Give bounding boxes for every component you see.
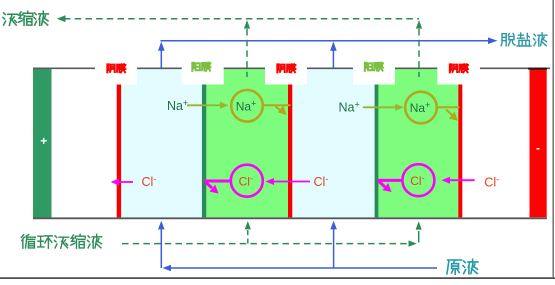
Cl- blocked arrow cell 1 at M2 bbox=[205, 180, 231, 183]
Cl- blocked arrow cell 2 at M4 bbox=[378, 179, 402, 182]
bottom concentrate dashed riser 1 (green) bbox=[247, 230, 249, 244]
bottom concentrate dashed riser corner bbox=[418, 236, 420, 243]
electrode anode (+) green bbox=[33, 68, 52, 218]
Na+ blocked arrow cell 1 through M3 bbox=[263, 104, 291, 106]
svg-text:-: - bbox=[536, 141, 540, 155]
top dilute outlet pipe (blue) riser 2 bbox=[332, 50, 334, 68]
cell: dilute compartment 1 (light blue) bbox=[121, 69, 202, 217]
label yang-mo M4 (green) bbox=[365, 63, 383, 71]
Na+ feed arrow cell 2 (yellow-green) bbox=[363, 106, 396, 108]
Na+ ion circle cell 1 (olive) bbox=[231, 90, 263, 122]
label box M4 bbox=[353, 54, 395, 85]
top dilute outlet pipe (blue) riser 1 bbox=[160, 50, 162, 68]
Cl- passing arrow through M1 (magenta) bbox=[117, 181, 133, 183]
cell: concentrate compartment 1 (green) bbox=[206, 69, 288, 217]
membrane M5 anion (red) bbox=[458, 84, 462, 217]
Cl- ion circle cell 1 (magenta) bbox=[231, 165, 263, 197]
label yang-mo M2 (green) bbox=[192, 63, 210, 71]
Na+ feed arrow cell 1 (yellow-green) bbox=[187, 104, 221, 106]
bottom feed header (blue) from raw bbox=[166, 267, 437, 269]
slide frame bottom line bbox=[0, 277, 555, 279]
label box M5 bbox=[437, 54, 480, 85]
electrode cathode (-) red bbox=[530, 70, 547, 218]
bottom concentrate dashed riser 2 (green) bbox=[418, 230, 420, 237]
membrane M2 cation (dark green) bbox=[202, 84, 206, 217]
cell: dilute compartment 2 (light blue) bbox=[292, 69, 374, 217]
membrane M3 anion (red) bbox=[288, 84, 292, 217]
cell: left white compartment bbox=[53, 69, 117, 217]
top concentrate dashed riser 2 (green) bbox=[418, 29, 420, 77]
text yuan-ye (raw liquid) bottom-right bbox=[447, 259, 478, 274]
cell: concentrate compartment 2 (green) bbox=[378, 69, 458, 217]
tank bottom border bbox=[33, 217, 547, 219]
cell: right white compartment bbox=[462, 69, 529, 217]
bottom feed riser 2 (blue) bbox=[333, 228, 335, 268]
top dilute outlet header (blue) to desalted bbox=[161, 40, 489, 42]
Cl- ion circle cell 2 (magenta) bbox=[402, 164, 434, 196]
tank top border bbox=[33, 67, 550, 69]
text xun-huan-nong-suo-ye (circulating concentrate) bottom-left bbox=[21, 234, 101, 248]
label box M3 bbox=[265, 54, 307, 85]
svg-text:+: + bbox=[40, 134, 47, 148]
bottom circulating concentrate dashed header (green) bbox=[122, 243, 409, 245]
bottom feed riser 1 (blue) bbox=[160, 228, 162, 268]
label yin-mo M5 (red) bbox=[450, 64, 468, 72]
text nong-suo-ye (concentrate) top-left bbox=[3, 11, 48, 25]
top concentrate dashed riser 1 (green) bbox=[246, 29, 248, 77]
label yin-mo M1 (red) bbox=[107, 64, 125, 72]
text tuo-yan-ye (desalted) top-right bbox=[501, 33, 547, 46]
label box M1 bbox=[95, 54, 137, 85]
Cl- migration arrow into circle 1 (magenta) bbox=[272, 181, 310, 183]
Cl- migration arrow into circle 2 (magenta) bbox=[448, 179, 475, 181]
Na+ ion circle cell 2 (olive) bbox=[405, 92, 437, 124]
top concentrate dashed header (green) bbox=[64, 18, 419, 20]
Na+ blocked arrow cell 2 through M5 bbox=[438, 106, 460, 108]
label yin-mo M3 (red) bbox=[277, 64, 295, 72]
label box M2 bbox=[182, 54, 224, 85]
membrane M4 cation (dark green) bbox=[375, 84, 379, 217]
membrane M1 anion (red) bbox=[117, 84, 121, 217]
slide frame right line bbox=[552, 0, 554, 278]
tank top border dark over cathode bbox=[528, 68, 547, 70]
